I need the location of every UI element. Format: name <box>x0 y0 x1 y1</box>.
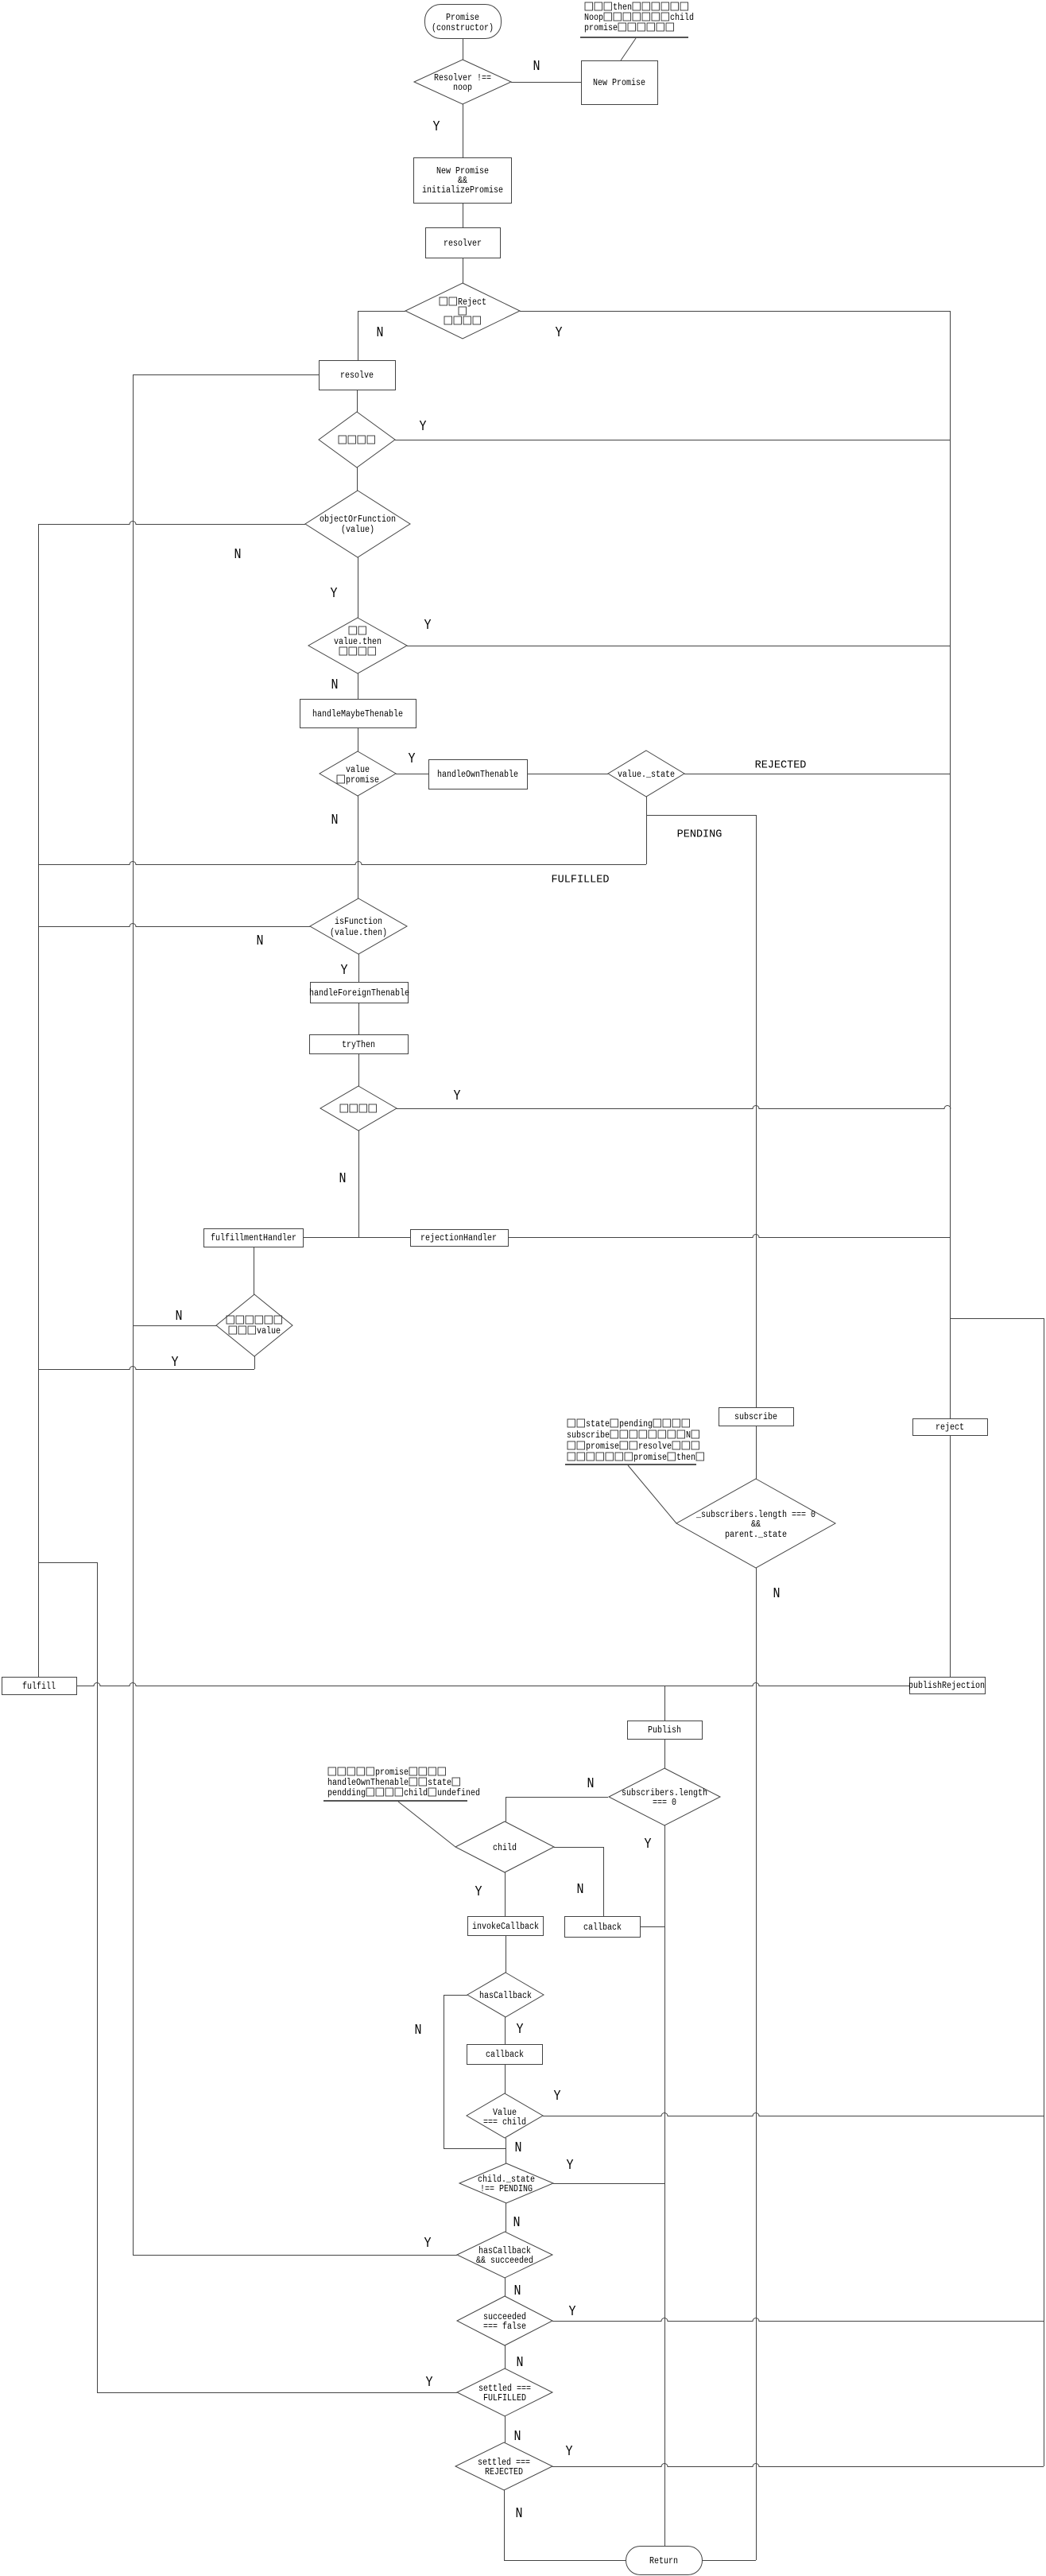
svg-text:initializePromise: initializePromise <box>422 185 503 196</box>
svg-text:promise: promise <box>584 23 618 33</box>
svg-text:then: then <box>613 2 632 13</box>
svg-text:objectOrFunction: objectOrFunction <box>320 514 396 525</box>
svg-text:pending: pending <box>619 1419 653 1430</box>
svg-text:Y: Y <box>454 1088 461 1104</box>
svg-text:New Promise: New Promise <box>593 78 645 88</box>
svg-text:Y: Y <box>172 1355 179 1371</box>
svg-text:REJECTED: REJECTED <box>755 759 807 772</box>
svg-text:Y: Y <box>566 2444 573 2460</box>
svg-text:parent._state: parent._state <box>725 1530 787 1540</box>
svg-text:&& succeeded: && succeeded <box>476 2256 533 2266</box>
svg-text:Promise: Promise <box>446 13 479 23</box>
svg-text:value: value <box>346 765 370 775</box>
svg-text:callback: callback <box>583 1922 622 1933</box>
svg-text:child: child <box>493 1843 517 1853</box>
svg-text:handleForeignThenable: handleForeignThenable <box>309 988 409 999</box>
svg-text:child: child <box>670 13 694 23</box>
svg-text:Noop: Noop <box>584 13 603 23</box>
svg-text:N: N <box>577 1882 584 1898</box>
svg-text:=== 0: === 0 <box>653 1798 676 1808</box>
svg-text:Publish: Publish <box>648 1725 681 1736</box>
svg-text:value: value <box>257 1326 281 1336</box>
svg-text:N: N <box>257 933 264 949</box>
svg-text:Y: Y <box>424 618 432 634</box>
svg-text:callback: callback <box>486 2050 524 2060</box>
svg-text:state: state <box>586 1419 610 1430</box>
svg-text:Y: Y <box>409 751 416 767</box>
svg-text:fulfillmentHandler: fulfillmentHandler <box>211 1233 296 1243</box>
svg-text:(value.then): (value.then) <box>330 928 387 938</box>
svg-text:hasCallback: hasCallback <box>479 1991 532 2001</box>
svg-text:Y: Y <box>420 419 427 435</box>
svg-text:FULFILLED: FULFILLED <box>483 2393 526 2403</box>
svg-text:N: N <box>176 1309 183 1325</box>
svg-text:Reject: Reject <box>458 297 486 308</box>
svg-text:FULFILLED: FULFILLED <box>552 874 610 886</box>
svg-text:REJECTED: REJECTED <box>485 2467 523 2477</box>
svg-text:(value): (value) <box>341 525 374 535</box>
svg-text:reject: reject <box>936 1422 964 1433</box>
svg-text:Y: Y <box>426 2375 433 2391</box>
svg-text:Y: Y <box>475 1884 482 1900</box>
svg-text:value.then: value.then <box>334 637 382 647</box>
svg-text:N: N <box>587 1776 595 1792</box>
svg-text:(constructor): (constructor) <box>432 23 494 33</box>
svg-text:=== false: === false <box>483 2322 526 2332</box>
svg-text:Y: Y <box>567 2158 574 2174</box>
svg-text:N: N <box>516 2506 523 2522</box>
svg-text:&&: && <box>751 1519 761 1530</box>
svg-text:subscribe: subscribe <box>567 1430 610 1441</box>
svg-text:N: N <box>234 547 242 563</box>
svg-text:then: then <box>676 1453 695 1463</box>
svg-text:Y: Y <box>341 963 348 979</box>
svg-text:N: N <box>415 2023 422 2039</box>
svg-text:child: child <box>404 1788 428 1798</box>
svg-text:N: N <box>513 2215 521 2231</box>
svg-text:publishRejection: publishRejection <box>908 1681 985 1691</box>
svg-text:Y: Y <box>424 2236 432 2252</box>
svg-text:N: N <box>515 2140 522 2156</box>
svg-text:tryThen: tryThen <box>342 1040 375 1050</box>
svg-text:Y: Y <box>554 2089 561 2105</box>
svg-text:undefined: undefined <box>437 1788 480 1798</box>
svg-text:handleMaybeThenable: handleMaybeThenable <box>312 709 403 720</box>
svg-text:invokeCallback: invokeCallback <box>472 1922 539 1932</box>
svg-text:handleOwnThenable: handleOwnThenable <box>327 1778 409 1788</box>
svg-text:handleOwnThenable: handleOwnThenable <box>437 770 518 780</box>
svg-text:Y: Y <box>556 325 563 341</box>
svg-text:pendding: pendding <box>327 1788 366 1798</box>
svg-text:PENDING: PENDING <box>677 828 723 841</box>
svg-text:promise: promise <box>346 775 379 786</box>
svg-text:N: N <box>773 1586 781 1602</box>
svg-text:N: N <box>331 813 339 828</box>
svg-text:value._state: value._state <box>618 770 675 780</box>
svg-text:promise: promise <box>375 1767 409 1778</box>
svg-text:noop: noop <box>453 83 472 93</box>
svg-text:N: N <box>686 1430 691 1441</box>
svg-text:!== PENDING: !== PENDING <box>480 2184 533 2194</box>
svg-text:Return: Return <box>649 2556 678 2566</box>
svg-text:N: N <box>517 2355 524 2371</box>
svg-text:Y: Y <box>433 119 440 135</box>
svg-text:Y: Y <box>645 1837 652 1852</box>
svg-text:N: N <box>533 59 540 75</box>
svg-text:rejectionHandler: rejectionHandler <box>420 1233 497 1243</box>
svg-text:promise: promise <box>633 1453 667 1463</box>
svg-text:N: N <box>377 325 384 341</box>
svg-text:Y: Y <box>331 586 338 602</box>
svg-text:N: N <box>514 2283 521 2299</box>
svg-text:promise: promise <box>586 1441 619 1452</box>
svg-text:subscribe: subscribe <box>734 1412 777 1422</box>
svg-text:resolve: resolve <box>340 370 374 381</box>
svg-text:resolve: resolve <box>638 1441 672 1452</box>
svg-text:state: state <box>428 1778 451 1788</box>
svg-text:Y: Y <box>569 2304 576 2320</box>
svg-text:N: N <box>339 1171 347 1187</box>
svg-text:Y: Y <box>517 2022 524 2038</box>
svg-text:=== child: === child <box>483 2117 526 2128</box>
svg-text:isFunction: isFunction <box>335 917 382 927</box>
svg-text:fulfill: fulfill <box>22 1682 56 1692</box>
svg-text:N: N <box>331 677 339 693</box>
svg-text:resolver: resolver <box>444 239 482 249</box>
svg-text:N: N <box>514 2429 521 2445</box>
